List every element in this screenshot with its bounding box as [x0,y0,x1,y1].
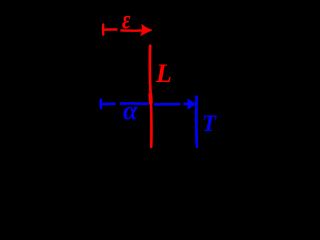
alpha dimension line segment 4 [184,103,189,106]
epsilon dimension arrowhead [141,25,151,35]
alpha dimension line segment 2 [120,102,149,105]
alpha dimension left tick [99,100,102,108]
rod wobble bulge at crossing [148,95,152,103]
label L [156,61,172,87]
label T [202,112,216,135]
wall: blue vertical line [195,97,198,147]
rod: red vertical line [150,46,152,147]
alpha dimension line segment 1 [101,102,116,105]
epsilon dimension line segment 1 [103,28,117,31]
alpha dimension arrowhead [188,100,195,109]
epsilon dimension line segment 2 [120,29,142,32]
alpha dimension line segment 3 [154,103,181,106]
label alpha [123,98,137,124]
label epsilon [122,7,131,33]
epsilon dimension left tick [102,24,105,34]
